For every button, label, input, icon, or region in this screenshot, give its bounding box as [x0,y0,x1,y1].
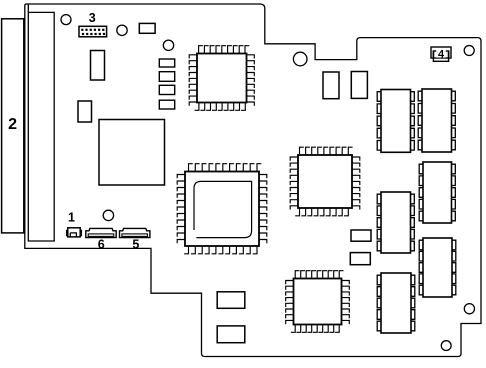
connector 6 [86,228,116,251]
resistor pack R3 [159,85,174,94]
svg-text:2: 2 [8,116,17,133]
resistor pack R1 [159,59,174,67]
mounting hole H2 [117,25,127,35]
component B1 [217,292,245,309]
IC A (QFP, top middle) [189,46,254,111]
svg-text:5: 5 [132,238,139,252]
resistor pack R2 [159,72,174,82]
component V2 [78,101,92,122]
component S2 [350,253,370,265]
connector 2 (edge connector, protrudes left) [2,19,24,233]
connector 4 (jumper) [431,47,451,61]
IC D6 (DIP package) [377,273,415,333]
resistor pack R4 [159,100,174,109]
connector 1 (jumper) [67,210,81,237]
component M1 [323,72,339,99]
svg-text:4: 4 [438,48,445,60]
hole H5 [103,210,113,220]
mounting hole H1 [61,15,71,25]
component M2 [351,72,367,99]
component T1 (small rect near top) [139,23,155,33]
component B2 [217,326,245,343]
IC D5 (DIP package) [419,238,456,297]
IC S (plain square chip) [99,120,165,186]
svg-text:3: 3 [89,11,96,25]
IC D (QFP, bottom middle) [286,271,350,333]
mounting hole H6 (top right) [464,46,474,56]
mounting hole H7 (bottom right) [464,304,474,314]
IC C (QFP, middle right) [290,147,360,216]
mounting hole H4 [293,52,307,66]
board edge strip / edge connector region on board [28,5,54,242]
component S1 [351,230,371,241]
IC D3 (DIP package) [377,192,414,253]
IC D4 (DIP package) [419,162,455,223]
hole H3 [163,40,173,50]
component V1 [91,51,105,81]
connector 3 (pin header) [79,11,107,37]
IC B (large QFP) [177,164,267,254]
svg-text:6: 6 [98,238,105,252]
connector 5 [120,228,150,251]
mounting hole H8 (bottom right lower) [441,341,451,351]
IC D2 (DIP package) [418,89,455,152]
svg-text:1: 1 [68,210,75,224]
IC D1 (DIP package) [377,90,414,153]
